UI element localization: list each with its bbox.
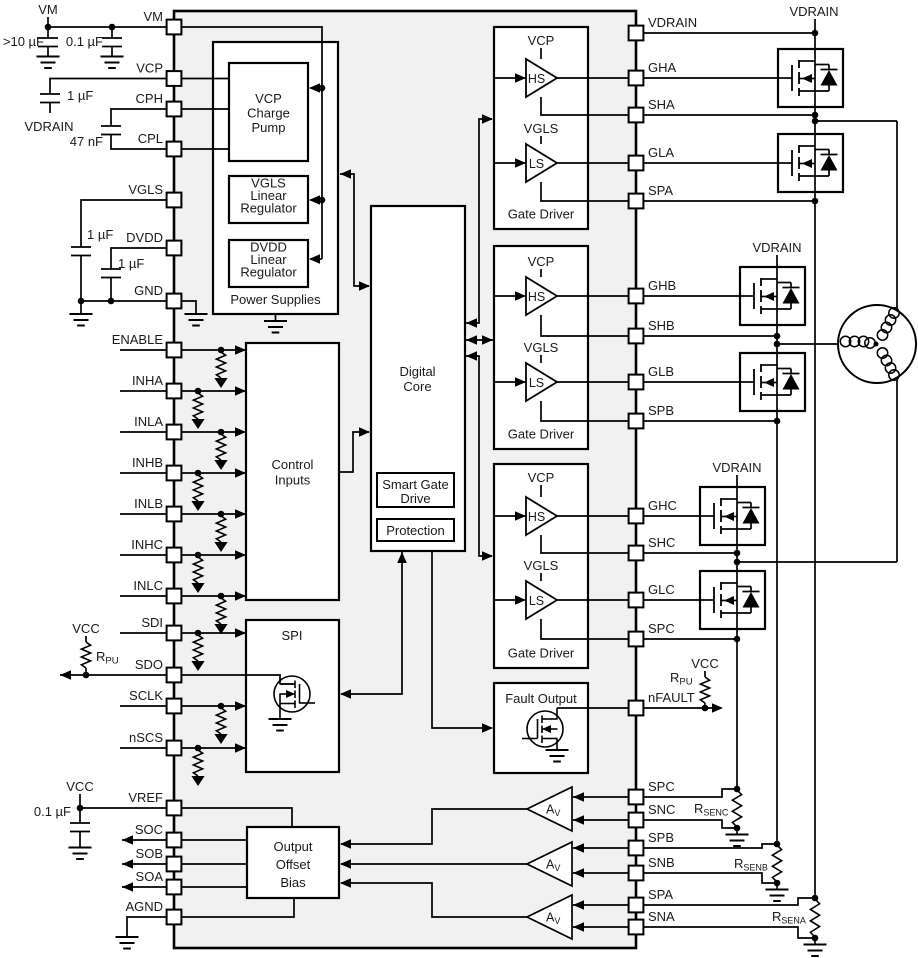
- svg-text:SHC: SHC: [648, 535, 675, 550]
- current sense amplifier AV-A: [527, 895, 572, 939]
- bypass capacitor ground: [101, 57, 124, 69]
- SOC output wire: [181, 839, 247, 841]
- gate driver B block: [494, 246, 588, 449]
- INLB input wire to control inputs: [174, 513, 245, 515]
- svg-text:SHB: SHB: [648, 318, 675, 333]
- SCLK external stub wire: [120, 705, 167, 707]
- external ground at GND: [80, 301, 82, 313]
- svg-text:VGLS: VGLS: [524, 558, 559, 573]
- svg-text:Smart Gate: Smart Gate: [382, 477, 448, 492]
- high-side MOSFET A: [778, 49, 843, 107]
- svg-text:HS: HS: [528, 290, 545, 304]
- SHA wire: [636, 114, 815, 116]
- VREF external wire: [80, 807, 167, 809]
- gate driver A SH sense wire: [541, 97, 636, 115]
- gate driver C LS input wire: [494, 599, 526, 601]
- digital core to gate driver B bus: [466, 335, 477, 345]
- svg-text:HS: HS: [528, 510, 545, 524]
- pin GLB: [629, 375, 644, 390]
- pin CPH: [167, 102, 182, 117]
- charge pump capacitor 47nF: [101, 126, 121, 135]
- gate driver B HS buffer: [526, 277, 557, 315]
- svg-text:Control: Control: [272, 457, 314, 472]
- SNB sense wire jog: [636, 873, 777, 883]
- INLA input wire to control inputs: [174, 431, 245, 433]
- INHB input wire to control inputs: [174, 472, 245, 474]
- pin VDRAIN: [629, 26, 644, 41]
- pin SDO: [167, 668, 182, 683]
- power supplies block: [213, 42, 338, 314]
- svg-text:VGLS: VGLS: [128, 182, 163, 197]
- svg-text:SPA: SPA: [648, 183, 673, 198]
- RSENB ground: [776, 883, 778, 889]
- svg-text:RPU: RPU: [96, 649, 119, 667]
- fault transistor source ground: [546, 750, 569, 762]
- CPH wire: [111, 109, 167, 126]
- GHA gate wire: [636, 77, 778, 79]
- pin nSCS: [167, 741, 182, 756]
- INHB internal pulldown resistor: [193, 475, 202, 501]
- VDRAIN pin wire: [636, 32, 815, 34]
- current sense amplifier AV-C: [527, 787, 572, 831]
- svg-text:1 µF: 1 µF: [118, 256, 144, 271]
- SOC output external wire: [122, 839, 167, 841]
- fault output transistor Q-FLT: [527, 711, 563, 747]
- sense resistor RSENC: [732, 790, 741, 827]
- svg-text:VDRAIN: VDRAIN: [648, 15, 697, 30]
- RSENA ground: [814, 938, 816, 944]
- pin GND: [167, 294, 182, 309]
- DVDD linear regulator block: [229, 240, 308, 287]
- pin VREF: [167, 801, 182, 816]
- svg-text:CPL: CPL: [138, 131, 163, 146]
- GND pin internal ground stub: [174, 301, 196, 313]
- fault output block: [494, 683, 588, 773]
- gate driver A HS buffer: [526, 59, 557, 97]
- svg-text:VCP: VCP: [528, 33, 555, 48]
- svg-text:Protection: Protection: [386, 523, 445, 538]
- svg-text:Power Supplies: Power Supplies: [230, 292, 321, 307]
- svg-text:AGND: AGND: [125, 899, 163, 914]
- SNC sense input wire to AV-C: [573, 819, 636, 821]
- power supplies block ground: [275, 314, 277, 320]
- nSCS internal pulldown resistor: [193, 750, 202, 776]
- gate driver B LS input wire: [494, 381, 526, 383]
- svg-text:SPC: SPC: [648, 621, 675, 636]
- AGND external ground: [116, 937, 139, 949]
- svg-text:SPB: SPB: [648, 830, 674, 845]
- svg-text:INHB: INHB: [132, 455, 163, 470]
- gate driver A GHA output wire: [557, 77, 636, 79]
- svg-text:SOC: SOC: [135, 822, 163, 837]
- gate driver A block: [494, 27, 588, 229]
- digital core to gate driver C bus: [466, 351, 477, 361]
- svg-text:SCLK: SCLK: [129, 688, 163, 703]
- INLA external stub wire: [120, 431, 167, 433]
- power supplies to digital core link: [340, 169, 351, 179]
- svg-text:VCP: VCP: [528, 254, 555, 269]
- phase A switch node wire: [814, 107, 816, 134]
- INHB external stub wire: [120, 472, 167, 474]
- SPC sense input wire to AV-C: [573, 796, 636, 798]
- SOA output external wire: [122, 886, 167, 888]
- pin GHB: [629, 289, 644, 304]
- gate driver B SH sense wire: [541, 315, 636, 336]
- gate driver C SP sense wire: [541, 619, 636, 639]
- svg-text:Regulator: Regulator: [240, 265, 297, 280]
- gate driver C HS buffer: [526, 497, 557, 535]
- svg-text:Pump: Pump: [252, 120, 286, 135]
- ENABLE internal pulldown resistor: [216, 352, 225, 378]
- INLC external stub wire: [120, 595, 167, 597]
- phase A source sense line: [814, 192, 816, 898]
- svg-text:VDRAIN: VDRAIN: [752, 240, 801, 255]
- svg-text:DVDD: DVDD: [126, 230, 163, 245]
- svg-text:nSCS: nSCS: [129, 730, 163, 745]
- pin SCLK: [167, 699, 182, 714]
- gate driver A HS input wire: [494, 77, 526, 79]
- INHC input wire to control inputs: [174, 554, 245, 556]
- pin INLB: [167, 507, 182, 522]
- output offset bias block: [247, 827, 339, 898]
- pin SOB: [167, 857, 182, 872]
- svg-text:SNA: SNA: [648, 909, 675, 924]
- INLB external stub wire: [120, 513, 167, 515]
- phase B motor wire: [777, 343, 840, 345]
- pin ENABLE: [167, 343, 182, 358]
- svg-text:GHC: GHC: [648, 498, 677, 513]
- VCP pin wire to charge pump: [174, 78, 229, 80]
- VCP charge pump block: [229, 63, 308, 161]
- svg-text:VGLS: VGLS: [524, 121, 559, 136]
- svg-text:RSENB: RSENB: [734, 856, 768, 873]
- VM rail branch arrow into DVDD regulator: [309, 254, 320, 264]
- SPA sense input wire to AV-A: [573, 904, 636, 906]
- svg-text:Inputs: Inputs: [275, 473, 311, 488]
- svg-text:Gate Driver: Gate Driver: [508, 427, 575, 442]
- INLA internal pulldown resistor: [216, 434, 225, 460]
- pin CPL: [167, 142, 182, 157]
- low-side MOSFET A: [778, 134, 843, 192]
- svg-text:Fault Output: Fault Output: [505, 691, 577, 706]
- phase C switch node wire: [736, 545, 738, 571]
- phase B switch node wire: [776, 325, 778, 353]
- svg-text:INHA: INHA: [132, 373, 163, 388]
- pin SHC: [629, 546, 644, 561]
- SPB sense wire jog: [636, 844, 777, 848]
- sense resistor RSENA: [810, 899, 819, 937]
- gate driver C GL output wire: [557, 599, 636, 601]
- SPC sense wire jog: [636, 789, 737, 797]
- bulk capacitor >10uF: [47, 27, 49, 38]
- SNA sense input wire to AV-A: [573, 926, 636, 928]
- svg-text:SOB: SOB: [136, 846, 163, 861]
- SHB wire: [636, 335, 777, 337]
- VCP flying capacitor wire: [50, 79, 167, 95]
- high-side MOSFET C: [700, 487, 765, 545]
- AGND wire to output offset bias: [174, 898, 294, 917]
- SDO output wire to SPI transistor: [174, 675, 280, 684]
- pin DVDD: [167, 241, 182, 256]
- SPI transistor source ground: [269, 719, 292, 731]
- pin SOC: [167, 833, 182, 848]
- SPI open-drain transistor Q-SPI: [274, 676, 310, 712]
- pin INHB: [167, 466, 182, 481]
- nFAULT wire from fault output block: [557, 707, 636, 709]
- bulk capacitor ground: [37, 57, 60, 69]
- pin GHA: [629, 71, 644, 86]
- control inputs block: [246, 343, 339, 600]
- gate driver B HS input wire: [494, 295, 526, 297]
- svg-text:RSENA: RSENA: [772, 909, 806, 926]
- svg-text:SHA: SHA: [648, 97, 675, 112]
- SDI input wire to SPI: [174, 632, 245, 634]
- gate driver C SH sense wire: [541, 535, 636, 553]
- digital core to gate driver A bus: [466, 318, 477, 328]
- VREF capacitor ground: [69, 848, 92, 860]
- pin SNB: [629, 866, 644, 881]
- svg-text:VCP: VCP: [255, 91, 282, 106]
- pin VM: [167, 20, 182, 35]
- nSCS external stub wire: [120, 747, 167, 749]
- DVDD wire: [111, 248, 167, 269]
- gate driver C LS buffer: [526, 581, 557, 619]
- nSCS input wire to SPI: [174, 747, 245, 749]
- svg-text:VDRAIN: VDRAIN: [712, 460, 761, 475]
- pin GLA: [629, 156, 644, 171]
- svg-text:GLB: GLB: [648, 364, 674, 379]
- pin INLA: [167, 425, 182, 440]
- svg-text:VCC: VCC: [66, 779, 93, 794]
- INHA external stub wire: [120, 390, 167, 392]
- phase B source sense line: [776, 411, 778, 844]
- gate driver C HS input wire: [494, 515, 526, 517]
- svg-text:47 nF: 47 nF: [70, 134, 103, 149]
- RSENC ground: [736, 828, 738, 834]
- svg-text:INLC: INLC: [133, 578, 163, 593]
- digital core block: [371, 206, 465, 551]
- gate driver B LS buffer: [526, 363, 557, 401]
- svg-text:SPC: SPC: [648, 779, 675, 794]
- SOA output wire: [181, 886, 247, 888]
- gate driver A LS buffer: [526, 144, 557, 182]
- svg-text:LS: LS: [529, 594, 544, 608]
- INLC internal pulldown resistor: [216, 598, 225, 624]
- ENABLE input wire to control inputs: [174, 349, 245, 351]
- pin INHA: [167, 384, 182, 399]
- control inputs to digital core link: [339, 432, 369, 472]
- pin SNC: [629, 813, 644, 828]
- VM supply wire: [48, 26, 167, 28]
- phase C motor wire: [737, 561, 897, 563]
- pin SPB: [629, 414, 644, 429]
- SNB sense input wire to AV-B: [573, 872, 636, 874]
- svg-text:VDRAIN: VDRAIN: [789, 4, 838, 19]
- phase A motor wire: [815, 120, 897, 122]
- pull-up resistor RPU at nFAULT: [700, 677, 709, 703]
- gate driver B GHB output wire: [557, 295, 636, 297]
- svg-text:GHB: GHB: [648, 278, 676, 293]
- svg-text:INLA: INLA: [134, 414, 163, 429]
- svg-text:SPA: SPA: [648, 887, 673, 902]
- digital core to SPI link: [397, 552, 407, 563]
- GLB gate wire: [636, 381, 740, 383]
- svg-text:SDO: SDO: [135, 657, 163, 672]
- svg-text:Offset: Offset: [276, 857, 311, 872]
- SHC wire: [636, 552, 737, 554]
- svg-text:SNC: SNC: [648, 802, 675, 817]
- svg-text:Core: Core: [403, 379, 431, 394]
- nFAULT external wire with arrow: [636, 707, 720, 709]
- svg-text:VCP: VCP: [136, 61, 163, 76]
- SDO output wire with arrow: [60, 674, 167, 676]
- gate driver A SP sense wire: [541, 182, 636, 201]
- INLC input wire to control inputs: [174, 595, 245, 597]
- IC body U1 (gate driver chip outline): [174, 11, 636, 948]
- svg-text:0.1 µF: 0.1 µF: [34, 804, 71, 819]
- svg-text:INHC: INHC: [131, 537, 163, 552]
- svg-text:HS: HS: [528, 72, 545, 86]
- gate driver B GL output wire: [557, 381, 636, 383]
- svg-text:LS: LS: [529, 157, 544, 171]
- GND pin wire to capacitor grounds: [81, 300, 167, 302]
- VREF wire to output offset bias: [174, 808, 292, 827]
- INHC external stub wire: [120, 554, 167, 556]
- VGLS linear regulator block: [229, 176, 308, 223]
- svg-text:VM: VM: [144, 9, 164, 24]
- smart gate drive block: [377, 473, 454, 507]
- CPL pin wire to charge pump: [174, 148, 229, 150]
- AGND external wire: [127, 917, 167, 936]
- SOB output wire: [181, 863, 247, 865]
- svg-text:0.1 µF: 0.1 µF: [66, 34, 103, 49]
- CPL wire: [111, 135, 167, 150]
- SPC wire: [636, 638, 737, 640]
- VM rail branch arrow into VCP charge pump: [310, 87, 322, 89]
- svg-text:1 µF: 1 µF: [67, 88, 93, 103]
- bypass capacitor 0.1uF at VM: [111, 27, 113, 38]
- pin SNA: [629, 920, 644, 935]
- svg-text:Charge: Charge: [247, 106, 290, 121]
- svg-text:ENABLE: ENABLE: [112, 332, 164, 347]
- SPA sense wire jog: [636, 898, 815, 905]
- VREF capacitor 0.1uF: [79, 808, 81, 823]
- GHB gate wire: [636, 295, 740, 297]
- sense resistor RSENB: [772, 845, 781, 882]
- pin nFAULT: [629, 701, 644, 716]
- VM internal supply rail: [174, 27, 322, 259]
- CPH pin wire to charge pump: [174, 108, 229, 110]
- gate driver A GL output wire: [557, 162, 636, 164]
- SDI internal pulldown resistor: [193, 635, 202, 661]
- pin VCP: [167, 71, 182, 86]
- svg-text:VGLS: VGLS: [524, 340, 559, 355]
- svg-text:SDI: SDI: [141, 615, 163, 630]
- pin GLC: [629, 593, 644, 608]
- GHC gate wire: [636, 515, 700, 517]
- INHA internal pulldown resistor: [193, 393, 202, 419]
- VDRAIN feed to high-side FET A: [814, 33, 816, 49]
- svg-text:LS: LS: [529, 376, 544, 390]
- VCP capacitor 1uF to VDRAIN: [40, 94, 60, 103]
- SNC sense wire jog: [636, 820, 737, 828]
- motor M1: [838, 305, 916, 383]
- pin SPC: [629, 632, 644, 647]
- VGLS wire: [81, 200, 167, 247]
- pin VGLS: [167, 193, 182, 208]
- svg-text:GND: GND: [134, 283, 163, 298]
- svg-text:VCC: VCC: [691, 656, 718, 671]
- motor phase interconnect vertical: [896, 121, 898, 562]
- svg-text:Gate Driver: Gate Driver: [508, 646, 575, 661]
- pin INLC: [167, 589, 182, 604]
- SOB output external wire: [122, 863, 167, 865]
- pin SPA: [629, 194, 644, 209]
- svg-text:GLA: GLA: [648, 145, 674, 160]
- INLB internal pulldown resistor: [216, 516, 225, 542]
- svg-text:RPU: RPU: [670, 670, 693, 688]
- svg-text:GHA: GHA: [648, 60, 677, 75]
- svg-text:VDRAIN: VDRAIN: [24, 119, 73, 134]
- pin AGND: [167, 910, 182, 925]
- current sense amplifier AV-B: [527, 842, 572, 886]
- gate driver C block: [494, 464, 588, 668]
- svg-text:VCC: VCC: [72, 621, 99, 636]
- GLA gate wire: [636, 162, 778, 164]
- ENABLE external stub wire: [120, 349, 167, 351]
- pin SDI: [167, 626, 182, 641]
- pull-up resistor RPU at SDO: [81, 642, 90, 668]
- phase C source sense line: [736, 629, 738, 789]
- pin SHA: [629, 108, 644, 123]
- svg-text:SPB: SPB: [648, 403, 674, 418]
- SPI block: [246, 620, 339, 772]
- svg-text:Drive: Drive: [400, 491, 430, 506]
- pin INHC: [167, 548, 182, 563]
- svg-text:VCP: VCP: [528, 470, 555, 485]
- SCLK input wire to SPI: [174, 705, 245, 707]
- protection block: [377, 519, 454, 541]
- svg-text:SOA: SOA: [136, 869, 164, 884]
- pin SOA: [167, 880, 182, 895]
- AV-B output wire to output offset bias: [341, 863, 527, 865]
- svg-text:GLC: GLC: [648, 582, 675, 597]
- AV-A output wire to output offset bias: [341, 883, 527, 917]
- svg-text:CPH: CPH: [136, 91, 163, 106]
- svg-text:>10 µF: >10 µF: [3, 34, 44, 49]
- GLC gate wire: [636, 599, 700, 601]
- AV-C output wire to output offset bias: [341, 809, 527, 844]
- pin SPA sense: [629, 898, 644, 913]
- gate driver A LS input wire: [494, 162, 526, 164]
- pin SHB: [629, 329, 644, 344]
- DVDD capacitor 1uF: [101, 269, 121, 278]
- INHC internal pulldown resistor: [193, 557, 202, 583]
- VGLS capacitor 1uF: [71, 247, 91, 256]
- SPA wire: [636, 200, 815, 202]
- svg-text:INLB: INLB: [134, 496, 163, 511]
- svg-text:nFAULT: nFAULT: [648, 690, 695, 705]
- high-side MOSFET B: [740, 267, 805, 325]
- svg-text:SNB: SNB: [648, 855, 675, 870]
- SCLK internal pulldown resistor: [216, 708, 225, 734]
- gate driver C GHC output wire: [557, 515, 636, 517]
- svg-text:VM: VM: [38, 2, 58, 17]
- SDI external stub wire: [120, 632, 167, 634]
- svg-text:Bias: Bias: [280, 875, 306, 890]
- gate driver B SP sense wire: [541, 401, 636, 421]
- svg-text:SPI: SPI: [282, 628, 303, 643]
